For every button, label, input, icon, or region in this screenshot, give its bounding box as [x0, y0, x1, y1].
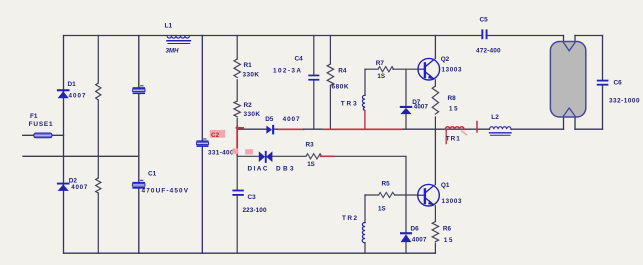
svg-text:C6: C6 [614, 80, 623, 87]
wire lamp return [575, 128, 603, 130]
lamp tube [550, 42, 585, 118]
wire C2 rail [201, 36, 203, 254]
diode D1 [57, 81, 86, 100]
wire D7 branch [405, 69, 407, 129]
resistor R1 [234, 59, 259, 78]
wire AC neutral [23, 155, 139, 157]
svg-text:4007: 4007 [283, 116, 300, 123]
svg-text:R2: R2 [244, 102, 253, 109]
svg-text:L1: L1 [165, 23, 173, 30]
svg-text:C2: C2 [211, 132, 220, 139]
capacitor C3 [232, 190, 267, 214]
transformer winding TR3 [341, 95, 365, 110]
svg-text:13003: 13003 [442, 198, 463, 205]
svg-text:Q2: Q2 [441, 56, 450, 63]
resistor R2 [234, 101, 260, 118]
capacitor C5 [476, 16, 501, 54]
svg-text:1S: 1S [307, 161, 315, 168]
svg-text:1S: 1S [377, 73, 385, 80]
svg-text:D5: D5 [265, 116, 274, 123]
svg-text:1 5: 1 5 [444, 237, 453, 244]
svg-text:3MH: 3MH [166, 48, 180, 55]
wire D6 branch [405, 195, 407, 253]
inductor L1 [165, 23, 191, 55]
svg-text:4007: 4007 [69, 93, 87, 100]
svg-text:680K: 680K [332, 84, 349, 91]
capacitor C1 [132, 171, 188, 195]
transistor Q2 [418, 56, 462, 80]
wire midpoint node [237, 128, 563, 130]
wire red tick [476, 122, 478, 133]
capacitor C4 [273, 55, 319, 80]
wire R1 R2 C3 rail [236, 36, 238, 254]
diode D6 [400, 225, 427, 243]
wire top bus [64, 35, 603, 37]
svg-text:472-400: 472-400 [476, 48, 501, 55]
svg-text:1 5: 1 5 [449, 105, 458, 112]
resistor R7 [376, 60, 394, 80]
svg-text:102-3A: 102-3A [273, 67, 301, 74]
svg-text:C1: C1 [148, 171, 157, 178]
svg-text:470UF-450V: 470UF-450V [142, 188, 189, 195]
transformer winding TR1 [445, 127, 466, 144]
svg-text:13003: 13003 [442, 66, 463, 73]
svg-text:332-1000: 332-1000 [609, 98, 640, 105]
capacitor electrolytic upper [133, 86, 145, 94]
resistor R8 [432, 86, 458, 114]
svg-text:4007: 4007 [414, 104, 429, 111]
wire lamp pins [564, 36, 576, 130]
svg-text:DIAC: DIAC [248, 166, 268, 173]
wire C6 branch [602, 36, 604, 130]
svg-text:R6: R6 [443, 226, 452, 233]
resistor R6 [432, 222, 453, 244]
svg-text:C4: C4 [295, 55, 304, 62]
wire AC live via fuse [23, 134, 64, 136]
wire TR2 branch [364, 195, 366, 253]
svg-text:331-400: 331-400 [208, 149, 234, 156]
node pink mark a [232, 148, 238, 153]
diode D2 [57, 177, 88, 191]
wire filter-cap rail [138, 36, 140, 254]
diode D7 [400, 99, 429, 114]
svg-text:R4: R4 [338, 67, 347, 74]
svg-text:R8: R8 [448, 95, 457, 102]
wire diac to Q1 base [237, 156, 406, 195]
wire Q1 base [365, 194, 418, 196]
svg-text:C3: C3 [248, 194, 257, 201]
svg-text:DB3: DB3 [276, 166, 294, 173]
wire Q1 emitter [434, 206, 436, 253]
wire bleeder rail [97, 36, 99, 254]
svg-text:1S: 1S [378, 206, 386, 213]
resistor R5 [378, 181, 395, 213]
capacitor C2 [197, 130, 234, 157]
wire Q1 collector [434, 129, 436, 184]
transformer winding TR2 [342, 215, 365, 243]
wire Q2 base [365, 68, 418, 70]
svg-text:4007: 4007 [412, 236, 427, 243]
resistor R3 [306, 141, 322, 168]
svg-text:L2: L2 [491, 114, 499, 121]
diac DB3 [248, 151, 294, 173]
wire TR3 red lead [364, 111, 366, 130]
svg-text:C5: C5 [480, 16, 489, 23]
inductor L2 [490, 114, 512, 135]
svg-text:4007: 4007 [71, 184, 88, 191]
wire red midpoint segment [279, 128, 303, 130]
svg-text:D1: D1 [68, 81, 77, 88]
svg-text:330K: 330K [243, 71, 260, 78]
wire red diac tail [321, 155, 334, 157]
wire left rail [63, 36, 65, 254]
wire Q2 collector [434, 36, 436, 59]
svg-text:TR3: TR3 [341, 101, 357, 108]
svg-text:223-100: 223-100 [243, 207, 267, 214]
resistor bleeder lower [96, 178, 101, 193]
svg-text:TR2: TR2 [342, 215, 357, 222]
svg-text:R5: R5 [382, 181, 391, 188]
svg-text:R1: R1 [244, 62, 253, 69]
resistor R4 [327, 64, 349, 91]
wire bottom rail [64, 252, 436, 254]
wire TR3 branch [364, 69, 366, 95]
wire R4 branch [329, 36, 331, 130]
svg-text:Q1: Q1 [441, 182, 450, 189]
svg-text:R7: R7 [376, 60, 385, 67]
wire red highlight node [236, 126, 238, 155]
wire C4 branch [313, 36, 315, 130]
svg-text:F1: F1 [30, 113, 38, 120]
svg-text:TR1: TR1 [446, 136, 460, 143]
svg-text:FUSE1: FUSE1 [29, 121, 53, 128]
svg-text:330K: 330K [244, 111, 261, 118]
capacitor C6 [597, 80, 640, 105]
transistor Q1 [418, 182, 462, 206]
svg-text:R3: R3 [306, 141, 315, 148]
svg-text:D6: D6 [411, 225, 420, 232]
wire Q2 emitter [434, 80, 436, 129]
diode D5 [265, 116, 300, 134]
node pink mark b [245, 149, 253, 154]
fuse F1 [29, 113, 53, 138]
resistor bleeder upper [96, 83, 101, 100]
